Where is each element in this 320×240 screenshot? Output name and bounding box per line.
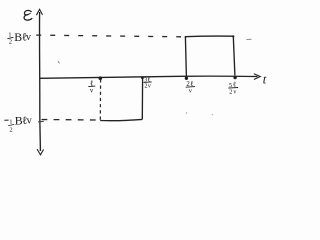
svg-text:v: v [90, 88, 94, 95]
upper dashed line at +1/2 Blv [36, 35, 181, 37]
positive pulse top edge [185, 35, 233, 38]
svg-text:v: v [27, 116, 33, 127]
y axis (vertical) [39, 12, 42, 151]
y axis arrowhead up [37, 9, 43, 15]
small tick on y axis at lower level [38, 120, 44, 123]
svg-text:v: v [26, 32, 32, 43]
tick label 5l/2v [228, 81, 238, 96]
pulse top-left corner dot [185, 36, 187, 38]
x axis (time) [40, 76, 258, 78]
label +1/2 Blv [7, 30, 32, 46]
axis label epsilon (script E) [24, 10, 32, 20]
faint speck below axis right [212, 114, 214, 116]
node at t = l/v [99, 76, 103, 80]
node at t = 2l/v [185, 77, 188, 80]
tick label 2l/v [186, 79, 195, 95]
svg-text:v: v [233, 90, 236, 96]
svg-text:v: v [148, 83, 151, 89]
stray ink speck [58, 62, 59, 64]
node at t = 5l/2v [233, 76, 236, 79]
tick label l/v [88, 79, 95, 95]
faint speck below axis left [186, 112, 188, 114]
x axis arrowhead right [254, 74, 260, 79]
tick label 3l/2v [144, 77, 152, 90]
lower dashed line at -1/2 Blv [42, 119, 100, 122]
label -1/2 Blv [4, 113, 32, 133]
negative pulse bottom edge [100, 119, 142, 120]
svg-text:2: 2 [9, 126, 12, 133]
epsilon mid flourish [27, 14, 30, 15]
y axis arrowhead down [37, 150, 43, 155]
node at t = 3l/2v [141, 76, 144, 79]
negative pulse right edge [141, 77, 143, 119]
pulse top-right corner dot [232, 35, 234, 37]
svg-text:t: t [263, 73, 267, 87]
svg-text:2: 2 [9, 39, 12, 46]
negative pulse left edge (dashed) [99, 79, 101, 120]
stray dash right of positive pulse [247, 38, 252, 40]
positive pulse right edge [233, 36, 235, 75]
svg-text:2: 2 [229, 89, 232, 96]
positive pulse left edge [185, 37, 186, 77]
